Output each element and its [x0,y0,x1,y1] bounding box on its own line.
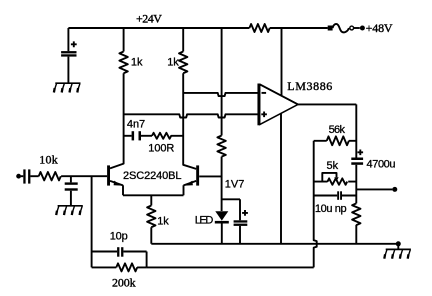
wire collector node to 4n7 [124,135,132,137]
svg-text:56k: 56k [329,124,346,136]
wire feedback node vertical (jogs over ground rail) [314,141,317,268]
label C1 polarity + [71,41,77,47]
resistor 100R [152,133,183,139]
svg-text:+24V: +24V [136,11,162,25]
wire op-amp V- pin to ground rail [280,114,282,244]
resistor PSU dropper (unlabelled) [249,24,269,32]
resistor 10k input [39,172,61,180]
wire +24V supply rail [68,27,327,29]
wire 10p branch left [92,251,118,253]
ground (input filter) [56,206,83,215]
svg-text:10u np: 10u np [315,203,347,215]
wire bias node to bypass capacitor [222,199,240,244]
wire fuse to +48V terminal [354,27,360,29]
wire bias node down to LED [221,157,223,211]
capacitor 10p [117,247,119,257]
wire input dot to coupling cap [21,175,24,177]
svg-text:1k: 1k [157,215,169,227]
wire node B: left collector to op-amp non-inverting input (hops at x=183.2 and x=221.6) [124,114,258,117]
svg-text:4n7: 4n7 [127,119,145,131]
svg-text:LM3886: LM3886 [287,79,332,93]
node input terminal dot [16,174,21,179]
node speaker output dot [392,187,397,192]
ground (top left) [54,83,81,92]
svg-text:1V7: 1V7 [225,178,245,190]
svg-text:5k: 5k [327,160,339,172]
wire right transistor base to bias node [199,175,221,177]
node +48V terminal dot [360,26,365,31]
wire emitter join [123,194,184,196]
wire right collector [183,73,196,169]
pin non-inverting input + [261,112,267,118]
wire op-amp V+ pin to rail [281,28,283,96]
wire left collector [110,73,124,168]
resistor 1k right collector load [179,28,187,73]
svg-text:1k: 1k [167,57,179,69]
wire speaker output tap [356,188,392,190]
svg-text:4700u: 4700u [367,158,396,170]
capacitor input coupling [23,169,25,183]
wire dot to ground symbol [397,244,399,250]
resistor 200k feedback [92,263,147,271]
wire 4n7 to 100R [141,135,152,137]
capacitor C1 PSU filter electrolytic [61,51,76,53]
svg-text:+48V: +48V [366,21,393,35]
label 4700u polarity + [358,150,364,156]
ground (bottom right) [384,249,411,258]
LED D1 [215,211,228,220]
wire op-amp output [298,104,356,157]
transistor Q1 left 2SC2240BL [107,165,110,185]
wire feedback box right vertical [146,252,148,268]
wire LED cathode to ground rail [221,224,223,244]
svg-text:200k: 200k [112,276,136,290]
svg-text:1k: 1k [131,57,143,69]
potentiometer 5k [314,178,357,184]
pin inverting input - [262,92,267,94]
resistor 56k feedback [314,136,357,145]
node ground dot [396,241,401,246]
fuse F1 [328,26,333,31]
capacitor input shunt [65,182,78,184]
capacitor 4700u output electrolytic [351,158,363,161]
svg-text:LED: LED [195,215,214,227]
resistor 1k left collector load [119,28,127,73]
svg-text:100R: 100R [148,142,174,154]
svg-text:10k: 10k [39,153,57,167]
svg-text:2SC2240BL: 2SC2240BL [123,170,182,182]
transistor Q2 right 2SC2240BL [196,165,199,185]
resistor bias feed from +24V rail [217,28,225,157]
wire node A: right collector to op-amp inverting input (hop at x=221.6) [183,93,258,96]
wire coupling cap to 10k [30,175,38,177]
capacitor 10u np [314,195,357,197]
svg-text:10p: 10p [110,231,128,243]
wire feedback left vertical from input node [91,176,93,267]
wire output cap to bleeder [355,165,357,204]
wire shunt cap stems [70,176,72,206]
capacitor LED bypass electrolytic [234,220,248,222]
resistor output bleeder (unlabelled) [352,203,360,243]
op-amp U1 LM3886 [260,84,298,124]
wire 10p branch right [123,251,146,253]
label bypass polarity + [242,210,248,216]
wire rail to PSU filter capacitor [67,28,69,83]
capacitor 4n7 [132,131,135,140]
resistor 1k tail [147,195,155,244]
wire feedback bottom return line [147,266,314,268]
wire ground rail [151,243,396,245]
wire 10k to left transistor base [61,175,107,177]
